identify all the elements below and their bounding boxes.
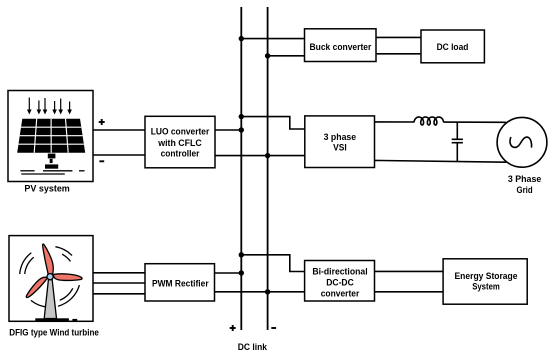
svg-text:DC-DC: DC-DC xyxy=(326,278,354,289)
icon: turbine base xyxy=(35,318,69,321)
grid source G1: 3 Phase Grid circle xyxy=(497,117,547,167)
node: PV + terminal xyxy=(99,119,105,125)
junction: DC+ bus / bi-directional step wire xyxy=(239,252,244,257)
junction: DC+ bus / buck wire xyxy=(239,36,244,41)
svg-text:DC load: DC load xyxy=(437,42,469,53)
icon: wind turbine motion arcs xyxy=(20,247,80,307)
capacitor C1 top lead xyxy=(456,122,458,138)
svg-text:PV system: PV system xyxy=(24,184,69,195)
icon: turbine blades xyxy=(26,244,82,297)
node: DC link + terminal xyxy=(230,325,236,331)
wire: DC- bus to Buck converter xyxy=(268,55,305,57)
block: Energy Storage System xyxy=(443,259,527,304)
junction: DC- bus / buck wire xyxy=(265,53,270,58)
wire: DC+ bus (left vertical bus) xyxy=(240,7,242,330)
wire: VSI to grid (bottom) xyxy=(375,160,507,162)
svg-text:Grid: Grid xyxy=(517,185,533,196)
svg-text:converter: converter xyxy=(321,288,360,299)
svg-text:Buck converter: Buck converter xyxy=(310,42,372,53)
inductor L1 xyxy=(414,117,443,125)
icon: turbine tower xyxy=(44,279,56,318)
wire: Buck converter to DC load (bottom) xyxy=(376,53,421,55)
block: PV system outer box xyxy=(8,91,93,182)
icon: turbine hub xyxy=(47,274,53,280)
capacitor C1 plates xyxy=(452,138,463,140)
node: PV - terminal xyxy=(99,160,104,162)
wire: PWM rectifier to DC- bus to Bi-directional converter (bottom) xyxy=(215,291,305,293)
block: LUO converter with CFLC controller xyxy=(145,116,215,168)
node: DC link - terminal xyxy=(271,327,276,329)
block: wind turbine outer box xyxy=(9,236,93,322)
wire: wind turbine to PWM rectifier phase b xyxy=(93,282,145,284)
block: PWM Rectifier xyxy=(145,264,215,301)
svg-text:Bi-directional: Bi-directional xyxy=(312,267,367,278)
svg-text:VSI: VSI xyxy=(333,142,347,153)
junction: DC- bus / PWM-bidir wire xyxy=(265,289,270,294)
icon: solar panel xyxy=(17,119,85,169)
wire: DC- bus (right vertical bus) xyxy=(267,7,269,330)
wire: DC+ bus step to Bi-directional converter (top) xyxy=(241,255,304,272)
wire: DC+ bus step to VSI (top) xyxy=(241,117,304,129)
svg-text:LUO converter: LUO converter xyxy=(151,127,210,138)
wire: PV + to LUO converter xyxy=(93,129,145,131)
block: Buck converter xyxy=(305,29,377,62)
junction: DC+ bus / LUO output xyxy=(239,127,244,132)
junction: DC+ bus / PWM output xyxy=(239,270,244,275)
icon: PV ground lines xyxy=(20,171,84,174)
wire: Bi-directional converter to Energy Storage (top) xyxy=(375,270,444,272)
wire: inductor to grid (top) xyxy=(443,121,506,123)
capacitor C1 bottom lead xyxy=(456,144,458,162)
svg-text:DFIG type Wind turbine: DFIG type Wind turbine xyxy=(9,328,99,339)
svg-text:3 Phase: 3 Phase xyxy=(508,174,541,185)
wire: LUO converter to DC- bus to VSI (bottom) xyxy=(215,155,305,157)
junction: DC- bus / LUO-VSI wire xyxy=(265,153,270,158)
junction: DC+ bus / VSI step wire xyxy=(239,114,244,119)
svg-text:DC link: DC link xyxy=(238,342,268,353)
wire: PV - to LUO converter xyxy=(93,154,145,156)
wire: Bi-directional converter to Energy Storage (bottom) xyxy=(375,291,444,293)
wire: wind turbine to PWM rectifier phase c xyxy=(93,293,145,295)
svg-text:PWM Rectifier: PWM Rectifier xyxy=(152,279,209,290)
wire: LUO converter to DC+ bus xyxy=(215,129,241,131)
wire: wind turbine to PWM rectifier phase a xyxy=(93,272,145,274)
svg-text:System: System xyxy=(472,282,500,293)
block: Bi-directional DC-DC converter xyxy=(305,261,375,302)
svg-text:with CFLC: with CFLC xyxy=(157,138,202,149)
wire: DC+ bus to Buck converter xyxy=(241,38,304,40)
icon: sun irradiance arrows xyxy=(27,98,72,115)
svg-text:controller: controller xyxy=(161,149,200,160)
block: 3 phase VSI xyxy=(305,116,375,168)
label: 3 Phase Grid xyxy=(508,174,541,196)
wire: PWM rectifier to DC+ bus xyxy=(215,272,242,274)
wire: Buck converter to DC load (top) xyxy=(376,36,421,38)
wire: VSI to inductor xyxy=(375,121,415,123)
block: DC load xyxy=(421,30,484,63)
